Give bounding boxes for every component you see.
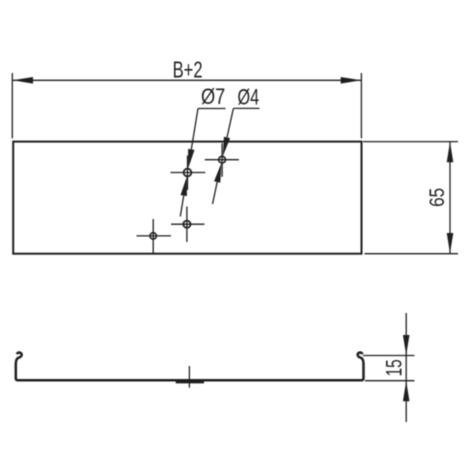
dimension 65 bottom arrowhead bbox=[447, 233, 454, 253]
dimension 15 bottom extension line bbox=[365, 380, 415, 382]
hole C horizontal centerline bbox=[171, 223, 205, 225]
leader diameter-7 shoulder bbox=[198, 108, 226, 110]
dimension 15 upper arrowhead bbox=[403, 335, 410, 355]
hole D circle bbox=[150, 233, 156, 239]
leader diameter-4 lower arrowhead bbox=[214, 163, 221, 183]
dimension B+2 right arrowhead bbox=[341, 77, 362, 84]
dimension 15 lower arrowhead bbox=[403, 381, 410, 401]
dimension 65 top arrowhead bbox=[447, 142, 454, 162]
leader diameter-4 tail segment bbox=[213, 182, 218, 204]
profile center mark bbox=[188, 366, 190, 388]
profile outline (section view) bbox=[16, 352, 364, 380]
hole D horizontal centerline bbox=[137, 235, 172, 237]
leader diameter-4 shoulder bbox=[233, 107, 259, 109]
hole A vertical centerline bbox=[187, 156, 189, 191]
dimension 65 dimension line bbox=[449, 142, 451, 254]
leader diameter-7 upper segment bbox=[191, 109, 198, 150]
hole B (diameter 4) circle bbox=[219, 156, 226, 163]
leader diameter-4 upper segment bbox=[227, 108, 233, 137]
svg-text:Ø4: Ø4 bbox=[238, 84, 260, 109]
dimension B+2 right extension line bbox=[360, 73, 362, 138]
profile sheet-thickness bar bbox=[176, 381, 204, 383]
hole A (diameter 7) circle bbox=[184, 169, 192, 177]
dimension B+2 left extension line bbox=[11, 73, 13, 138]
dimension 65 bottom extension line bbox=[365, 253, 459, 255]
hole C vertical centerline bbox=[186, 207, 188, 243]
dimension 15 dimension line bbox=[405, 313, 407, 422]
svg-text:Ø7: Ø7 bbox=[201, 84, 225, 109]
svg-text:65: 65 bbox=[425, 188, 449, 207]
dimension B+2 left arrowhead bbox=[13, 77, 34, 84]
svg-text:B+2: B+2 bbox=[173, 57, 203, 83]
hole B horizontal centerline bbox=[205, 159, 239, 161]
hole B vertical centerline bbox=[221, 143, 223, 177]
dimension 65 top extension line bbox=[363, 141, 458, 143]
leader diameter-7 tail segment bbox=[180, 196, 183, 217]
leader diameter-7 lower arrowhead bbox=[181, 176, 187, 196]
hole C circle bbox=[183, 221, 190, 228]
dimension 15 top extension line bbox=[363, 355, 415, 357]
hole A horizontal centerline bbox=[171, 172, 206, 174]
hole D vertical centerline bbox=[152, 219, 154, 253]
leader diameter-4 upper arrowhead bbox=[223, 137, 230, 157]
dimension B+2 dimension line bbox=[12, 79, 361, 81]
plate outline (top view) bbox=[13, 142, 361, 254]
leader diameter-7 upper arrowhead bbox=[188, 149, 194, 169]
svg-text:15: 15 bbox=[381, 359, 406, 376]
